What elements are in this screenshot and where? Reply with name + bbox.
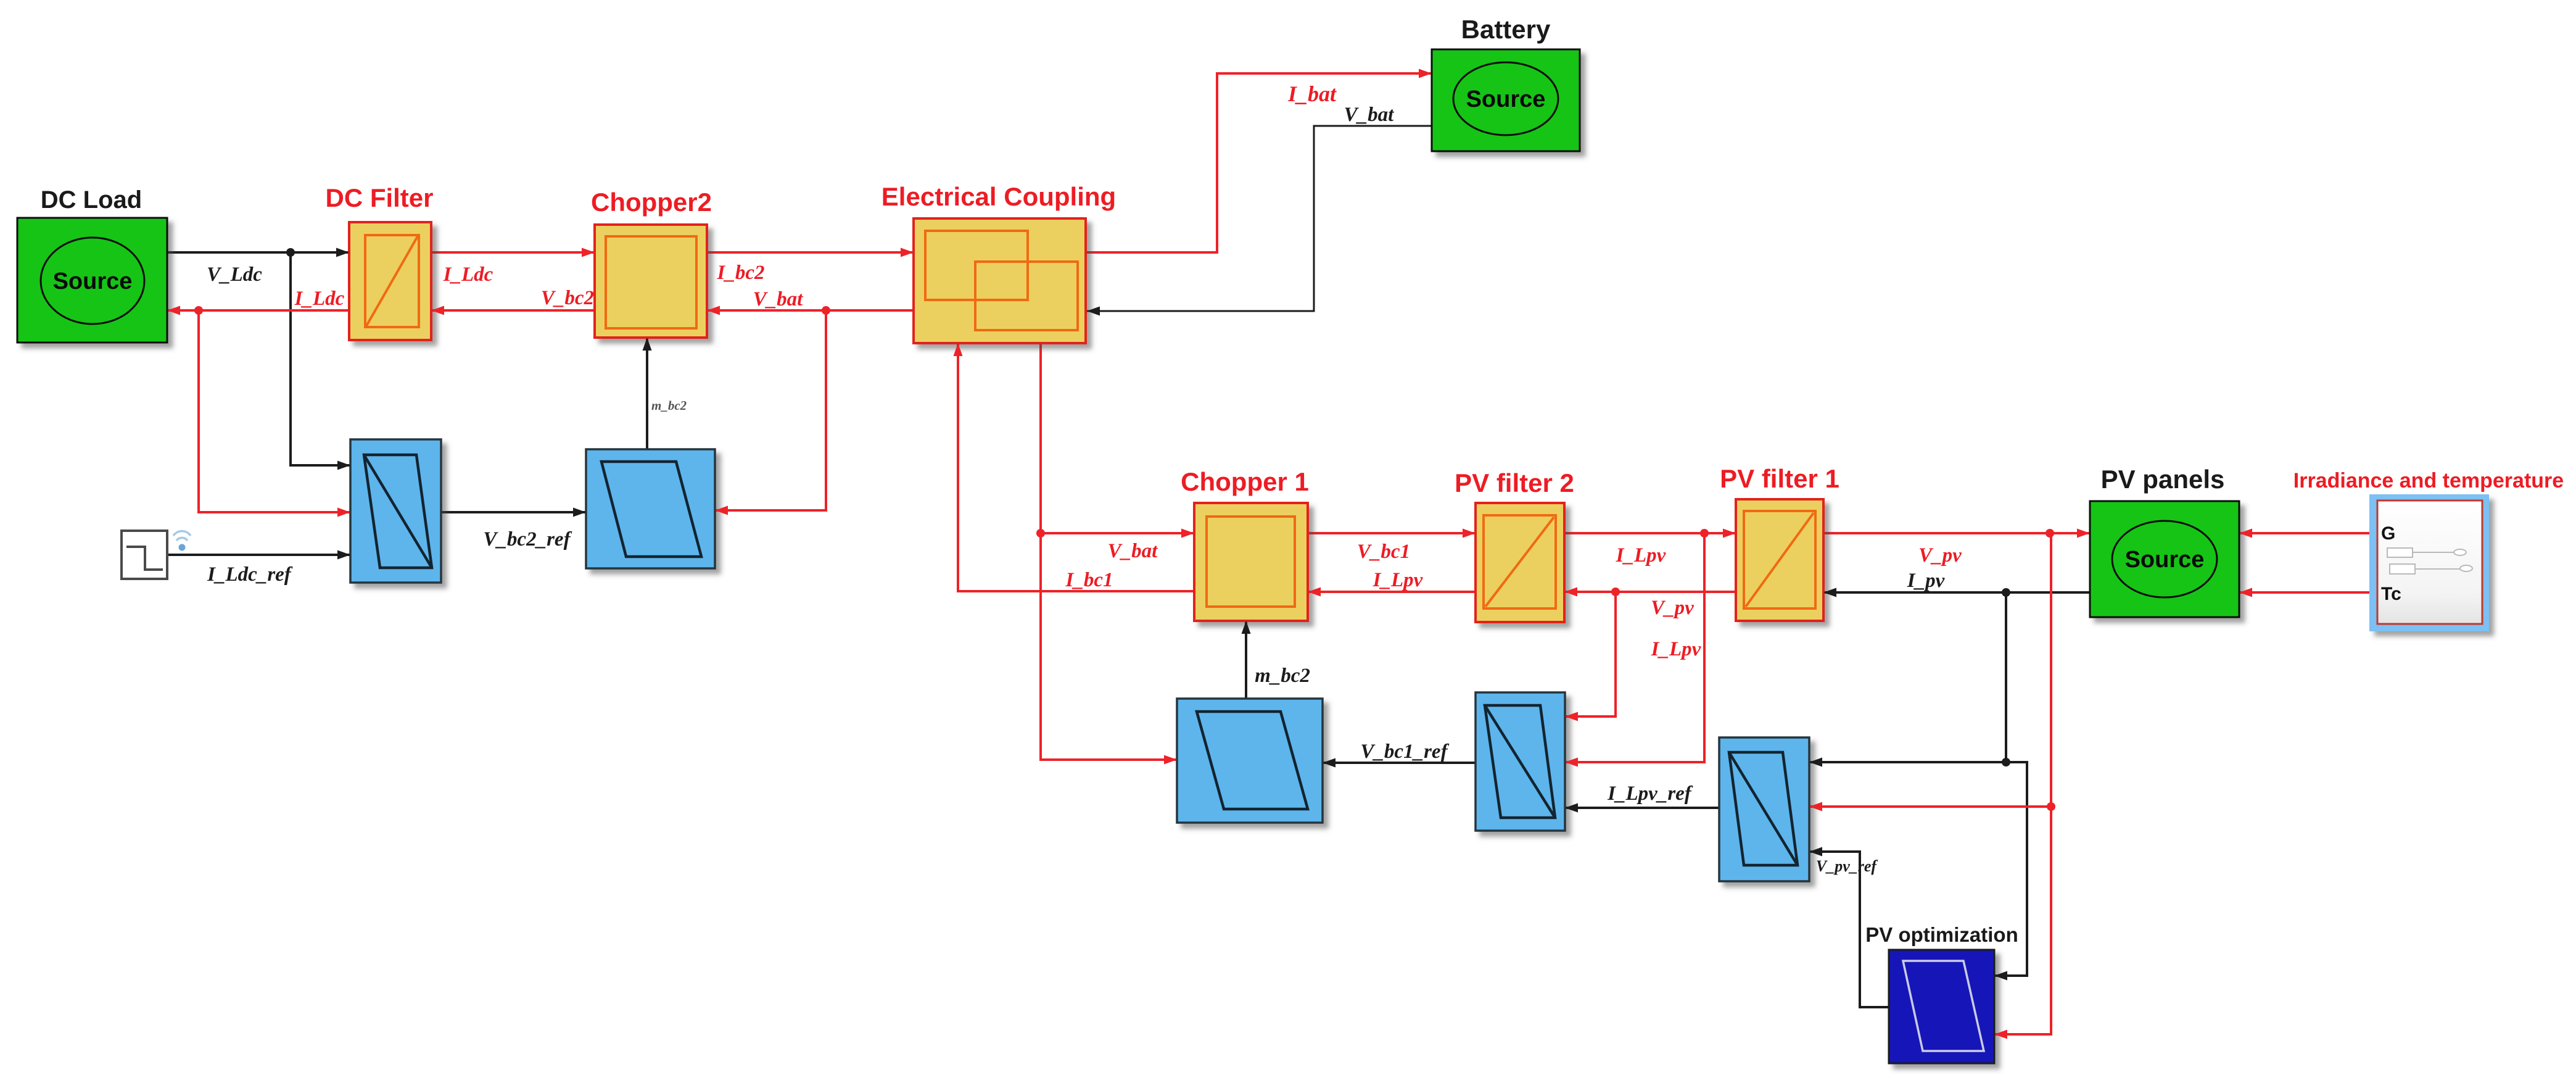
svg-text:I_pv: I_pv [1907, 570, 1945, 592]
svg-text:PV optimization: PV optimization [1865, 923, 2018, 946]
svg-text:PV filter 1: PV filter 1 [1720, 464, 1839, 493]
svg-text:V_bc1_ref: V_bc1_ref [1360, 741, 1449, 763]
svg-text:I_Lpv: I_Lpv [1651, 638, 1701, 660]
svg-text:V_Ldc: V_Ldc [207, 264, 262, 286]
svg-text:DC Load: DC Load [41, 186, 142, 214]
svg-text:V_pv: V_pv [1651, 597, 1694, 619]
svg-text:V_bc1: V_bc1 [1357, 541, 1410, 563]
svg-text:I_bc2: I_bc2 [717, 262, 765, 284]
svg-text:I_Ldc: I_Ldc [443, 264, 493, 286]
svg-text:Irradiance and temperature: Irradiance and temperature [2293, 469, 2564, 492]
svg-text:V_bat: V_bat [1108, 540, 1158, 562]
svg-text:Source: Source [53, 268, 133, 294]
svg-text:PV panels: PV panels [2101, 465, 2225, 494]
svg-text:DC Filter: DC Filter [325, 183, 433, 212]
svg-text:V_bc2: V_bc2 [541, 287, 594, 309]
svg-text:V_pv_ref: V_pv_ref [1816, 857, 1878, 875]
svg-text:Source: Source [2125, 547, 2205, 573]
svg-text:V_pv: V_pv [1918, 544, 1962, 567]
svg-text:I_Ldc_ref: I_Ldc_ref [207, 563, 293, 586]
svg-text:V_bat: V_bat [753, 288, 804, 310]
svg-text:Chopper 1: Chopper 1 [1181, 467, 1309, 496]
svg-text:PV filter 2: PV filter 2 [1455, 468, 1574, 497]
svg-text:Source: Source [1466, 86, 1546, 112]
svg-text:V_bat: V_bat [1344, 104, 1395, 126]
svg-text:G: G [2381, 523, 2395, 544]
svg-text:I_bc1: I_bc1 [1065, 569, 1113, 591]
svg-text:Tc: Tc [2381, 584, 2401, 604]
svg-text:Chopper2: Chopper2 [591, 188, 712, 217]
svg-text:I_Lpv: I_Lpv [1373, 569, 1423, 591]
svg-text:m_bc2: m_bc2 [1255, 665, 1310, 687]
svg-text:I_Lpv: I_Lpv [1616, 544, 1666, 567]
svg-text:Battery: Battery [1461, 15, 1551, 44]
svg-text:I_Ldc: I_Ldc [294, 288, 345, 310]
svg-text:I_bat: I_bat [1287, 81, 1337, 106]
svg-text:I_Lpv_ref: I_Lpv_ref [1607, 783, 1693, 805]
svg-text:Electrical Coupling: Electrical Coupling [881, 182, 1116, 211]
svg-text:m_bc2: m_bc2 [651, 398, 687, 413]
svg-text:V_bc2_ref: V_bc2_ref [483, 528, 572, 550]
